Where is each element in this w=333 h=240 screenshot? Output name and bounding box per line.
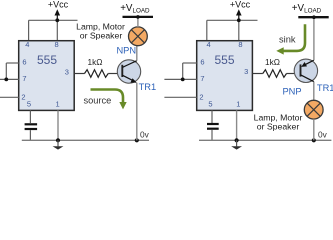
- svg-text:3: 3: [65, 67, 69, 76]
- wire lamp bottom lead right: [313, 119, 315, 140]
- node pin1 ground junction: [56, 138, 60, 142]
- resistor R1 1k: [85, 70, 109, 78]
- wire pin2 right: [164, 96, 196, 98]
- annotation source arrow: [91, 90, 127, 110]
- svg-text:0v: 0v: [140, 130, 150, 140]
- svg-text:+Vcc: +Vcc: [48, 0, 69, 10]
- node Vcc junction: [55, 18, 59, 22]
- power +Vcc arrow right: [236, 9, 242, 20]
- svg-text:4: 4: [25, 40, 29, 49]
- svg-text:or Speaker: or Speaker: [80, 31, 123, 41]
- svg-text:+Vcc: +Vcc: [230, 0, 251, 10]
- svg-text:8: 8: [55, 40, 59, 49]
- wire pin7: [0, 78, 19, 80]
- transistor Q1 base bar: [121, 65, 123, 77]
- node lamp 0v junction right: [312, 138, 316, 142]
- svg-text:5: 5: [27, 100, 31, 109]
- wire pin5 to capacitor: [29, 110, 31, 123]
- transistor Q2 PNP body: [294, 59, 317, 82]
- transistor Q1 collector stroke: [122, 61, 137, 68]
- svg-text:sink: sink: [279, 34, 296, 44]
- node emitter 0v junction: [135, 138, 139, 142]
- wire emitter to 0v: [136, 83, 138, 141]
- wire pin6: [6, 62, 18, 64]
- wire lamp top lead: [137, 17, 139, 27]
- svg-text:6: 6: [200, 58, 204, 67]
- wire top rail left: [29, 19, 78, 21]
- wire capacitor to 0v rail: [29, 130, 31, 140]
- svg-text:6: 6: [22, 58, 26, 67]
- svg-text:or Speaker: or Speaker: [257, 122, 300, 132]
- wire collector to lamp: [136, 46, 138, 61]
- lamp L2 (right load): [304, 100, 323, 119]
- wire emitter to +Vload right: [313, 17, 315, 60]
- transistor Q1 NPN body: [117, 60, 140, 83]
- svg-text:source: source: [83, 95, 111, 105]
- svg-text:3: 3: [244, 67, 248, 76]
- node pin1 ground junction right: [235, 138, 239, 142]
- svg-text:555: 555: [37, 53, 57, 67]
- resistor R2 1k: [263, 70, 287, 78]
- transistor Q2 emitter stroke with arrow into base: [301, 60, 314, 67]
- op-amp U2: 555 timer body right: [197, 41, 253, 111]
- svg-text:PNP: PNP: [282, 86, 301, 96]
- wire pin3 output: [74, 73, 84, 75]
- svg-text:1kΩ: 1kΩ: [88, 57, 103, 67]
- wire pin3 output right: [252, 73, 262, 75]
- node pin7 junction: [4, 78, 8, 82]
- svg-text:1: 1: [236, 100, 240, 109]
- svg-text:0v: 0v: [318, 130, 328, 140]
- node lamp supply junction: [136, 15, 140, 19]
- wire pin8 vertical right: [238, 20, 240, 40]
- wire pin4 vertical right: [206, 20, 208, 40]
- transistor Q2 collector stroke: [301, 75, 314, 82]
- wire pin1 vertical right: [236, 110, 238, 140]
- svg-text:8: 8: [238, 40, 242, 49]
- annotation sink arrow: [276, 24, 305, 54]
- node supply junction right: [312, 15, 316, 19]
- svg-text:TR1: TR1: [317, 83, 333, 93]
- wire pin1 vertical: [57, 110, 59, 140]
- capacitor C2: [207, 124, 219, 129]
- wire pin6-pin7 vertical: [5, 63, 7, 79]
- svg-text:5: 5: [208, 100, 212, 109]
- wire resistor to base: [108, 73, 122, 75]
- svg-text:555: 555: [214, 53, 234, 67]
- wire resistor to base right: [287, 73, 301, 75]
- power +Vcc arrow: [55, 9, 61, 20]
- lamp L1 (left load): [129, 27, 148, 46]
- svg-text:2: 2: [199, 93, 203, 102]
- wire pin6-pin7 vertical right: [182, 63, 184, 79]
- transistor Q2 base bar: [300, 64, 302, 76]
- op-amp U1: 555 timer body: [19, 41, 74, 111]
- svg-text:NPN: NPN: [116, 46, 136, 56]
- wire pin8 vertical: [56, 20, 58, 40]
- power +Vload bar left: [123, 16, 154, 18]
- ground: [53, 140, 64, 149]
- wire pin7 right: [164, 78, 196, 80]
- svg-text:7: 7: [200, 74, 204, 83]
- node Vcc junction right: [237, 18, 241, 22]
- svg-text:1kΩ: 1kΩ: [265, 57, 280, 67]
- svg-text:7: 7: [22, 74, 26, 83]
- svg-text:TR1: TR1: [139, 82, 157, 92]
- svg-text:1: 1: [56, 100, 60, 109]
- wire bottom 0v rail left: [22, 139, 149, 141]
- transistor Q1 emitter stroke with arrow: [122, 75, 137, 83]
- wire top rail right: [207, 19, 258, 21]
- ground right: [231, 140, 242, 149]
- wire pin5 to capacitor right: [211, 110, 213, 123]
- capacitor C1: [25, 124, 37, 129]
- svg-text:2: 2: [21, 93, 25, 102]
- wire pin2: [0, 96, 19, 98]
- svg-text:4: 4: [207, 40, 211, 49]
- wire bottom 0v rail right: [199, 139, 331, 141]
- wire collector to lamp right: [313, 82, 315, 101]
- node pin7 junction right: [181, 78, 185, 82]
- power +Vload bar right: [298, 16, 328, 18]
- wire pin4 vertical: [28, 20, 30, 40]
- wire pin6 right: [183, 62, 197, 64]
- wire capacitor to 0v rail right: [211, 130, 213, 141]
